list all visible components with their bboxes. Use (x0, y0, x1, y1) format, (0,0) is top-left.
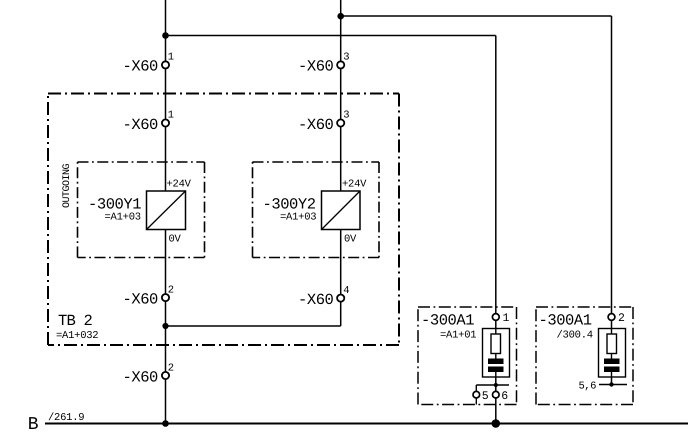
svg-text:2: 2 (168, 362, 174, 374)
junction at (495.8,423.5) on bus B (492, 419, 501, 428)
svg-text:5: 5 (482, 390, 489, 403)
svg-text:6: 6 (501, 390, 508, 403)
svg-text:/261.9: /261.9 (48, 412, 84, 424)
svg-text:/300.4: /300.4 (557, 330, 593, 342)
label =A1+03 (left valve) (105, 212, 141, 224)
label 5,6 (579, 381, 597, 393)
label +24V (right valve) (342, 179, 367, 191)
device -300A1 =A1+01 dash-dot box (418, 307, 517, 405)
svg-text:-X60: -X60 (123, 368, 159, 386)
net label B (28, 415, 39, 435)
svg-text:-300A1: -300A1 (539, 312, 592, 330)
svg-text:-X60: -X60 (298, 116, 334, 134)
label -300Y2 (263, 196, 316, 214)
svg-text:=A1+01: =A1+01 (440, 330, 476, 342)
fuse/device body -300A1 (right) (599, 329, 626, 378)
wire: horizontal link y=326 from x=165.5 to x=340.7 (166, 325, 341, 327)
wire: horizontal branch y=36 from x=165.5 to x=495.8 (166, 35, 496, 37)
svg-text:-X60: -X60 (298, 291, 334, 309)
fuse/device body -300A1 (left) (483, 329, 510, 378)
svg-text:-X60: -X60 (123, 290, 159, 308)
svg-text:2: 2 (168, 284, 174, 296)
svg-text:4: 4 (343, 285, 349, 297)
device -300A1 /300.4 dash-dot box (536, 307, 633, 405)
svg-text:B: B (28, 415, 39, 435)
valve enclosure dash-dot box (left) (78, 162, 205, 258)
label /300.4 (557, 330, 593, 342)
label +24V (left valve) (167, 179, 192, 191)
svg-text:5,6: 5,6 (579, 381, 597, 393)
terminal -X60:2 (left, inside box) (123, 284, 175, 308)
svg-text:OUTGOING: OUTGOING (62, 163, 73, 208)
svg-text:=A1+03: =A1+03 (280, 212, 316, 224)
terminal -X60:1 (left, inside box) (123, 110, 175, 134)
solenoid valve -300Y1 coil symbol (147, 191, 186, 230)
svg-text:-X60: -X60 (123, 58, 159, 76)
terminal -X60:1 (left, outside box) (123, 52, 175, 76)
terminal -X60:3 (right, inside box) (298, 110, 350, 134)
terminal -X60:2 (left, below box) (123, 362, 175, 386)
label OUTGOING (rotated) (62, 163, 73, 208)
svg-text:-X60: -X60 (123, 116, 159, 134)
wire: vertical drop x=611.5 to -300A1 (right) (611, 16, 613, 385)
valve enclosure dash-dot box (right) (253, 162, 380, 258)
label 0V (left valve) (169, 234, 182, 246)
svg-text:1: 1 (168, 110, 174, 122)
svg-text:TB 2: TB 2 (58, 312, 93, 330)
pin 5 of -300A1 (left) (473, 390, 489, 405)
svg-text:=A1+03: =A1+03 (105, 212, 141, 224)
wire: horizontal branch y=16 from x=340.7 to x=611.5 (341, 15, 612, 17)
label TB 2 (58, 312, 93, 330)
label -300Y1 (88, 196, 141, 214)
svg-text:1: 1 (168, 52, 174, 64)
enclosure TB 2 dash-dot box (48, 94, 399, 346)
terminal -X60:3 (right, outside box) (298, 52, 350, 76)
junction at (165.5,423.5) on bus B (162, 420, 169, 427)
label =A1+01 (440, 330, 476, 342)
pin 6 of -300A1 (left) (493, 390, 509, 403)
pin 2 of -300A1 (right) (608, 312, 625, 325)
label 0V (right valve) (344, 234, 357, 246)
junction at (165.5,36) (162, 32, 169, 39)
svg-text:0V: 0V (169, 234, 182, 246)
label -300A1 (right) (539, 312, 592, 330)
svg-text:-X60: -X60 (298, 58, 334, 76)
svg-text:-300A1: -300A1 (421, 312, 474, 330)
svg-text:=A1+032: =A1+032 (56, 330, 98, 342)
junction at (340.7,16) (337, 13, 344, 20)
svg-text:+24V: +24V (167, 179, 192, 191)
label -300A1 (left) (421, 312, 474, 330)
svg-text:0V: 0V (344, 234, 357, 246)
node 5,6 stub of -300A1 (right) (599, 382, 627, 386)
label =A1+032 (56, 330, 98, 342)
junction at (165.5,326) (162, 323, 168, 329)
svg-text:2: 2 (618, 312, 625, 325)
svg-text:+24V: +24V (342, 179, 367, 191)
net cross-reference /261.9 (48, 412, 84, 424)
pin 1 of -300A1 (left) (492, 312, 509, 325)
label =A1+03 (right valve) (280, 212, 316, 224)
svg-text:3: 3 (343, 52, 349, 64)
wire: vertical feed left column x=165.5 (165, 0, 167, 424)
solenoid valve -300Y2 coil symbol (322, 191, 361, 230)
svg-text:3: 3 (343, 110, 349, 122)
wire: vertical feed right column x=340.7 (340, 0, 342, 326)
terminal -X60:4 (right, inside box) (298, 285, 350, 309)
wire: bus B bottom horizontal (45, 423, 688, 425)
wire: vertical drop x=495.8 to -300A1 (left) and bottom bus (495, 36, 497, 424)
node/junction below -300A1 (left) at (495.8,385) (476, 383, 509, 391)
svg-text:1: 1 (503, 312, 510, 325)
